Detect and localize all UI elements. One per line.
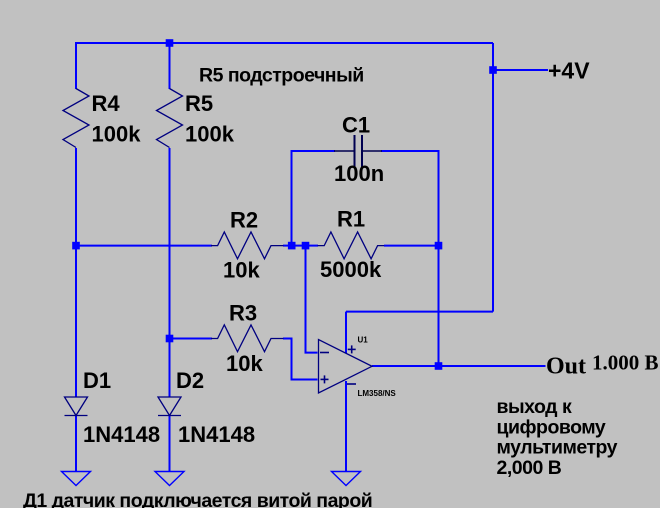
node inverting input junction: [302, 242, 310, 250]
wire between nodes: [292, 245, 306, 247]
wire +4V rail right vertical: [492, 43, 494, 312]
node top rail junction: [166, 39, 174, 47]
resistor R3: [211, 301, 284, 377]
svg-text:R5: R5: [185, 91, 213, 116]
wire D1 anode: [75, 246, 77, 397]
wire V+ pin vertical: [345, 312, 347, 354]
wire node to R1: [306, 245, 319, 247]
wire C1 right vertical: [381, 151, 439, 246]
svg-text:D2: D2: [176, 368, 204, 393]
svg-text:выход к: выход к: [497, 396, 572, 418]
svg-text:10k: 10k: [223, 258, 260, 283]
ground under D2: [155, 472, 184, 486]
svg-text:1N4148: 1N4148: [178, 422, 255, 447]
svg-text:R1: R1: [337, 207, 365, 232]
wire minus input: [306, 246, 318, 353]
svg-text:2,000 В: 2,000 В: [497, 457, 562, 479]
resistor R1: [318, 207, 385, 283]
svg-text:R3: R3: [229, 301, 257, 326]
node C1 left junction: [288, 242, 296, 250]
node +4V junction: [489, 66, 497, 74]
wire V+ feed horizontal: [346, 311, 493, 313]
resistor R2: [211, 208, 284, 283]
wire R3 to plus input: [283, 339, 318, 380]
diode D2: [158, 368, 255, 447]
svg-text:Out: Out: [546, 354, 586, 380]
resistor R4: [63, 89, 141, 148]
svg-text:R2: R2: [230, 208, 258, 233]
svg-text:100k: 100k: [92, 122, 142, 147]
ground under D1: [62, 472, 91, 486]
wire output: [372, 365, 546, 367]
svg-text:1.000 В: 1.000 В: [592, 351, 659, 375]
svg-text:100n: 100n: [334, 161, 384, 186]
svg-text:LM358/NS: LM358/NS: [358, 389, 397, 398]
wire R1 to right node: [384, 245, 439, 247]
svg-text:U1: U1: [358, 336, 369, 345]
resistor R5: [157, 89, 235, 148]
node output junction: [435, 362, 443, 370]
svg-text:мультиметру: мультиметру: [497, 437, 618, 459]
wire top rail: [76, 42, 493, 44]
wire C1 left vertical: [292, 151, 336, 246]
wire R5 top lead: [169, 43, 171, 89]
svg-text:D1: D1: [83, 368, 111, 393]
svg-text:цифровому: цифровому: [497, 416, 606, 438]
wire R3 left: [170, 338, 213, 340]
svg-text:1N4148: 1N4148: [83, 422, 160, 447]
svg-text:Д1 датчик подключается витой п: Д1 датчик подключается витой парой: [23, 490, 372, 508]
wire R4 bottom lead: [75, 148, 77, 246]
wire mid horizontal left: [76, 245, 212, 247]
wire D1 cathode to ground: [75, 416, 77, 473]
svg-text:+4V: +4V: [548, 58, 590, 84]
node R1 right junction: [435, 242, 443, 250]
svg-text:C1: C1: [342, 113, 370, 138]
op-amp U1: [319, 336, 397, 399]
wire V- pin vertical: [345, 381, 347, 472]
wire D2 cathode to ground: [169, 416, 171, 473]
annotation multimeter output: [497, 396, 618, 479]
svg-text:R4: R4: [92, 91, 121, 116]
node left mid junction: [72, 242, 80, 250]
wire R1 right vertical down: [438, 246, 440, 366]
diode D1: [65, 368, 161, 447]
ground under op-amp: [332, 472, 361, 486]
wire +4V stub: [493, 69, 548, 71]
svg-text:5000k: 5000k: [320, 257, 382, 282]
wire R5 bottom long: [169, 148, 171, 397]
svg-text:100k: 100k: [185, 122, 235, 147]
node R3 junction: [166, 335, 174, 343]
capacitor C1: [334, 113, 384, 187]
svg-text:R5 подстроечный: R5 подстроечный: [199, 65, 364, 87]
wire R2 to node: [283, 245, 292, 247]
wire R4 top lead: [75, 42, 77, 89]
svg-text:10k: 10k: [226, 351, 263, 376]
